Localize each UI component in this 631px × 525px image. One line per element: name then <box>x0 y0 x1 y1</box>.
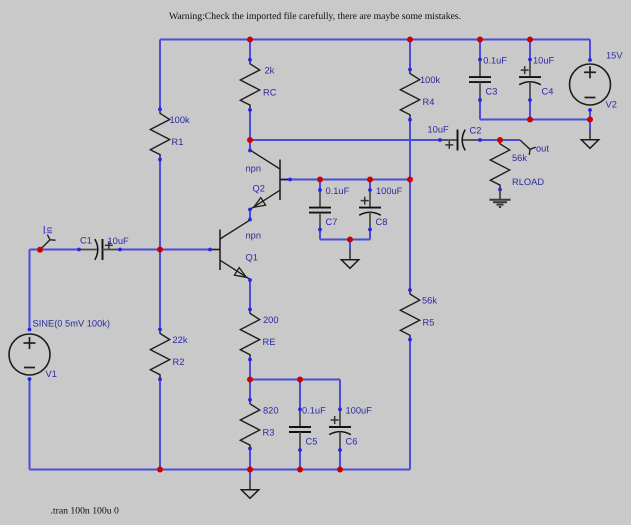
svg-text:V1: V1 <box>46 369 57 379</box>
svg-text:C3: C3 <box>486 87 498 97</box>
junction C7 C8 ground <box>347 237 353 243</box>
ground under V2 <box>581 120 598 149</box>
junction C4 bottom <box>527 117 533 123</box>
wire C1 to base node <box>120 249 160 251</box>
svg-text:200: 200 <box>263 315 279 325</box>
svg-text:C2: C2 <box>470 126 482 136</box>
svg-text:Warning:Check the imported fil: Warning:Check the imported file carefull… <box>169 11 461 22</box>
node out <box>520 140 549 155</box>
svg-text:C8: C8 <box>376 217 388 227</box>
capacitor C4 <box>519 56 555 102</box>
svg-text:0.1uF: 0.1uF <box>302 405 326 415</box>
wire C7 C8 ground rail <box>320 239 370 241</box>
svg-text:R2: R2 <box>173 357 185 367</box>
wire C4 to gnd rail <box>529 100 531 120</box>
wire C7 to gnd rail <box>319 230 321 240</box>
junction divider R4 R5 <box>407 177 413 183</box>
wire rail to C3 <box>479 40 481 61</box>
svg-text:C4: C4 <box>542 87 554 97</box>
svg-text:Q2: Q2 <box>253 184 265 194</box>
svg-text:C7: C7 <box>326 217 338 227</box>
wire rail to R3 <box>249 380 251 401</box>
wire V2 minus to ground <box>589 110 591 130</box>
junction R4 top rail <box>407 37 413 43</box>
wire collector node to C2 <box>250 139 440 141</box>
svg-text:10uF: 10uF <box>108 236 130 246</box>
wire C2 to out node <box>480 139 520 141</box>
svg-text:56k: 56k <box>512 153 527 163</box>
svg-text:npn: npn <box>246 231 262 241</box>
svg-text:V2: V2 <box>606 100 617 110</box>
junction V2 ground <box>587 117 593 123</box>
wire C6 to bottom rail <box>339 450 341 470</box>
svg-text:100k: 100k <box>170 115 191 125</box>
junction in flag <box>37 247 43 253</box>
transistor Q2 <box>246 149 292 212</box>
junction C7 top <box>317 177 323 183</box>
wire bottom ground rail <box>30 469 411 471</box>
wire top rail to R1 <box>159 40 161 110</box>
svg-text:in: in <box>44 227 54 234</box>
wire Q2 emitter to Q1 collector <box>249 210 251 221</box>
junction R2 bottom rail <box>157 467 163 473</box>
svg-text:Q1: Q1 <box>246 253 258 263</box>
wire emitter bypass rail <box>250 379 340 381</box>
wire R4 to R5 <box>409 120 411 290</box>
svg-text:RC: RC <box>263 87 277 97</box>
junction collector node <box>247 137 253 143</box>
svg-text:R4: R4 <box>423 97 435 107</box>
resistor R2 <box>150 328 188 382</box>
junction C3 top rail <box>477 37 483 43</box>
resistor R5 <box>400 288 437 341</box>
resistor RLOAD <box>490 138 544 192</box>
wire R2 bottom to ground rail <box>159 379 161 470</box>
junction RC top rail <box>247 37 253 43</box>
svg-text:2k: 2k <box>265 65 275 75</box>
wire rail to V2 plus <box>589 40 591 61</box>
capacitor C7 <box>309 186 350 231</box>
capacitor C1 <box>77 236 129 261</box>
svg-text:22k: 22k <box>173 335 188 345</box>
resistor R3 <box>240 398 278 451</box>
wire Q2 base to divider node <box>281 179 410 181</box>
wire rail to C6 <box>339 380 341 410</box>
wire supply ground rail <box>480 119 590 121</box>
svg-text:SINE(0 5mV 100k): SINE(0 5mV 100k) <box>33 319 111 329</box>
capacitor C5 <box>289 405 326 452</box>
junction C4 top rail <box>527 37 533 43</box>
wire RC to collector node <box>249 110 251 140</box>
wire base node to R2 top <box>159 250 161 330</box>
wire RE bottom to emitter rail <box>249 360 251 380</box>
wire rail to RC <box>249 40 251 61</box>
voltage source V1 <box>9 319 110 381</box>
resistor RC <box>240 58 276 112</box>
svg-text:C1: C1 <box>80 236 92 246</box>
wire rail to C4 <box>529 40 531 61</box>
svg-text:0.1uF: 0.1uF <box>483 56 507 66</box>
svg-text:10uF: 10uF <box>533 56 555 66</box>
wire base node to Q1 base <box>160 249 212 251</box>
svg-text:out: out <box>536 144 549 154</box>
svg-text:RE: RE <box>263 337 276 347</box>
transistor Q1 <box>208 218 261 282</box>
wire in node to C1 <box>30 249 80 251</box>
svg-text:R3: R3 <box>263 427 275 437</box>
svg-text:npn: npn <box>246 164 262 174</box>
svg-text:100uF: 100uF <box>346 405 373 415</box>
capacitor C6 <box>329 405 372 452</box>
svg-text:RLOAD: RLOAD <box>512 177 544 187</box>
svg-text:C6: C6 <box>346 436 358 446</box>
resistor R1 <box>150 107 190 161</box>
svg-text:100k: 100k <box>420 75 441 85</box>
resistor RE <box>240 308 278 362</box>
junction C6 bottom rail <box>337 467 343 473</box>
wire rail to C5 <box>299 380 301 410</box>
svg-text:0.1uF: 0.1uF <box>326 186 350 196</box>
node in <box>40 226 56 250</box>
junction C5 top <box>297 377 303 383</box>
capacitor C8 <box>359 186 403 231</box>
wire to C7 <box>319 180 321 191</box>
svg-text:C5: C5 <box>306 436 318 446</box>
junction base divider node <box>157 247 163 253</box>
junction C8 top <box>367 177 373 183</box>
wire R3 to bottom rail <box>249 449 251 470</box>
wire R5 to bottom rail <box>409 340 411 470</box>
wire top supply rail <box>160 39 590 41</box>
svg-text:100uF: 100uF <box>376 186 403 196</box>
ground earth under RLOAD <box>490 190 511 208</box>
svg-text:15V: 15V <box>606 51 623 61</box>
svg-text:10uF: 10uF <box>428 125 450 135</box>
wire R1 bottom to base node <box>159 160 161 250</box>
ground bottom rail <box>241 470 258 499</box>
voltage source V2 <box>570 51 624 112</box>
junction C5 bottom rail <box>297 467 303 473</box>
svg-text:R1: R1 <box>172 137 184 147</box>
junction out node <box>497 137 503 143</box>
svg-text:56k: 56k <box>422 296 437 306</box>
wire C8 to gnd rail <box>369 230 371 240</box>
wire node to Q2 collector <box>249 140 251 151</box>
resistor R4 <box>400 68 440 122</box>
svg-text:R5: R5 <box>423 318 435 328</box>
wire C5 to bottom rail <box>299 450 301 470</box>
junction RE R3 node <box>247 377 253 383</box>
capacitor C2 <box>428 125 482 151</box>
wire to C8 <box>369 180 371 191</box>
svg-text:820: 820 <box>263 405 279 415</box>
wire Q1 emitter to RE <box>249 280 251 310</box>
junction R3 bottom rail <box>247 467 253 473</box>
wire in node down to V1 <box>29 250 31 331</box>
wire C3 to gnd rail <box>479 100 481 120</box>
svg-text:.tran 100n 100u 0: .tran 100n 100u 0 <box>51 506 119 517</box>
ground under C7 C8 <box>341 240 358 269</box>
capacitor C3 <box>469 56 507 102</box>
wire V1 minus to bottom rail <box>29 379 31 470</box>
wire rail to R4 <box>409 40 411 71</box>
